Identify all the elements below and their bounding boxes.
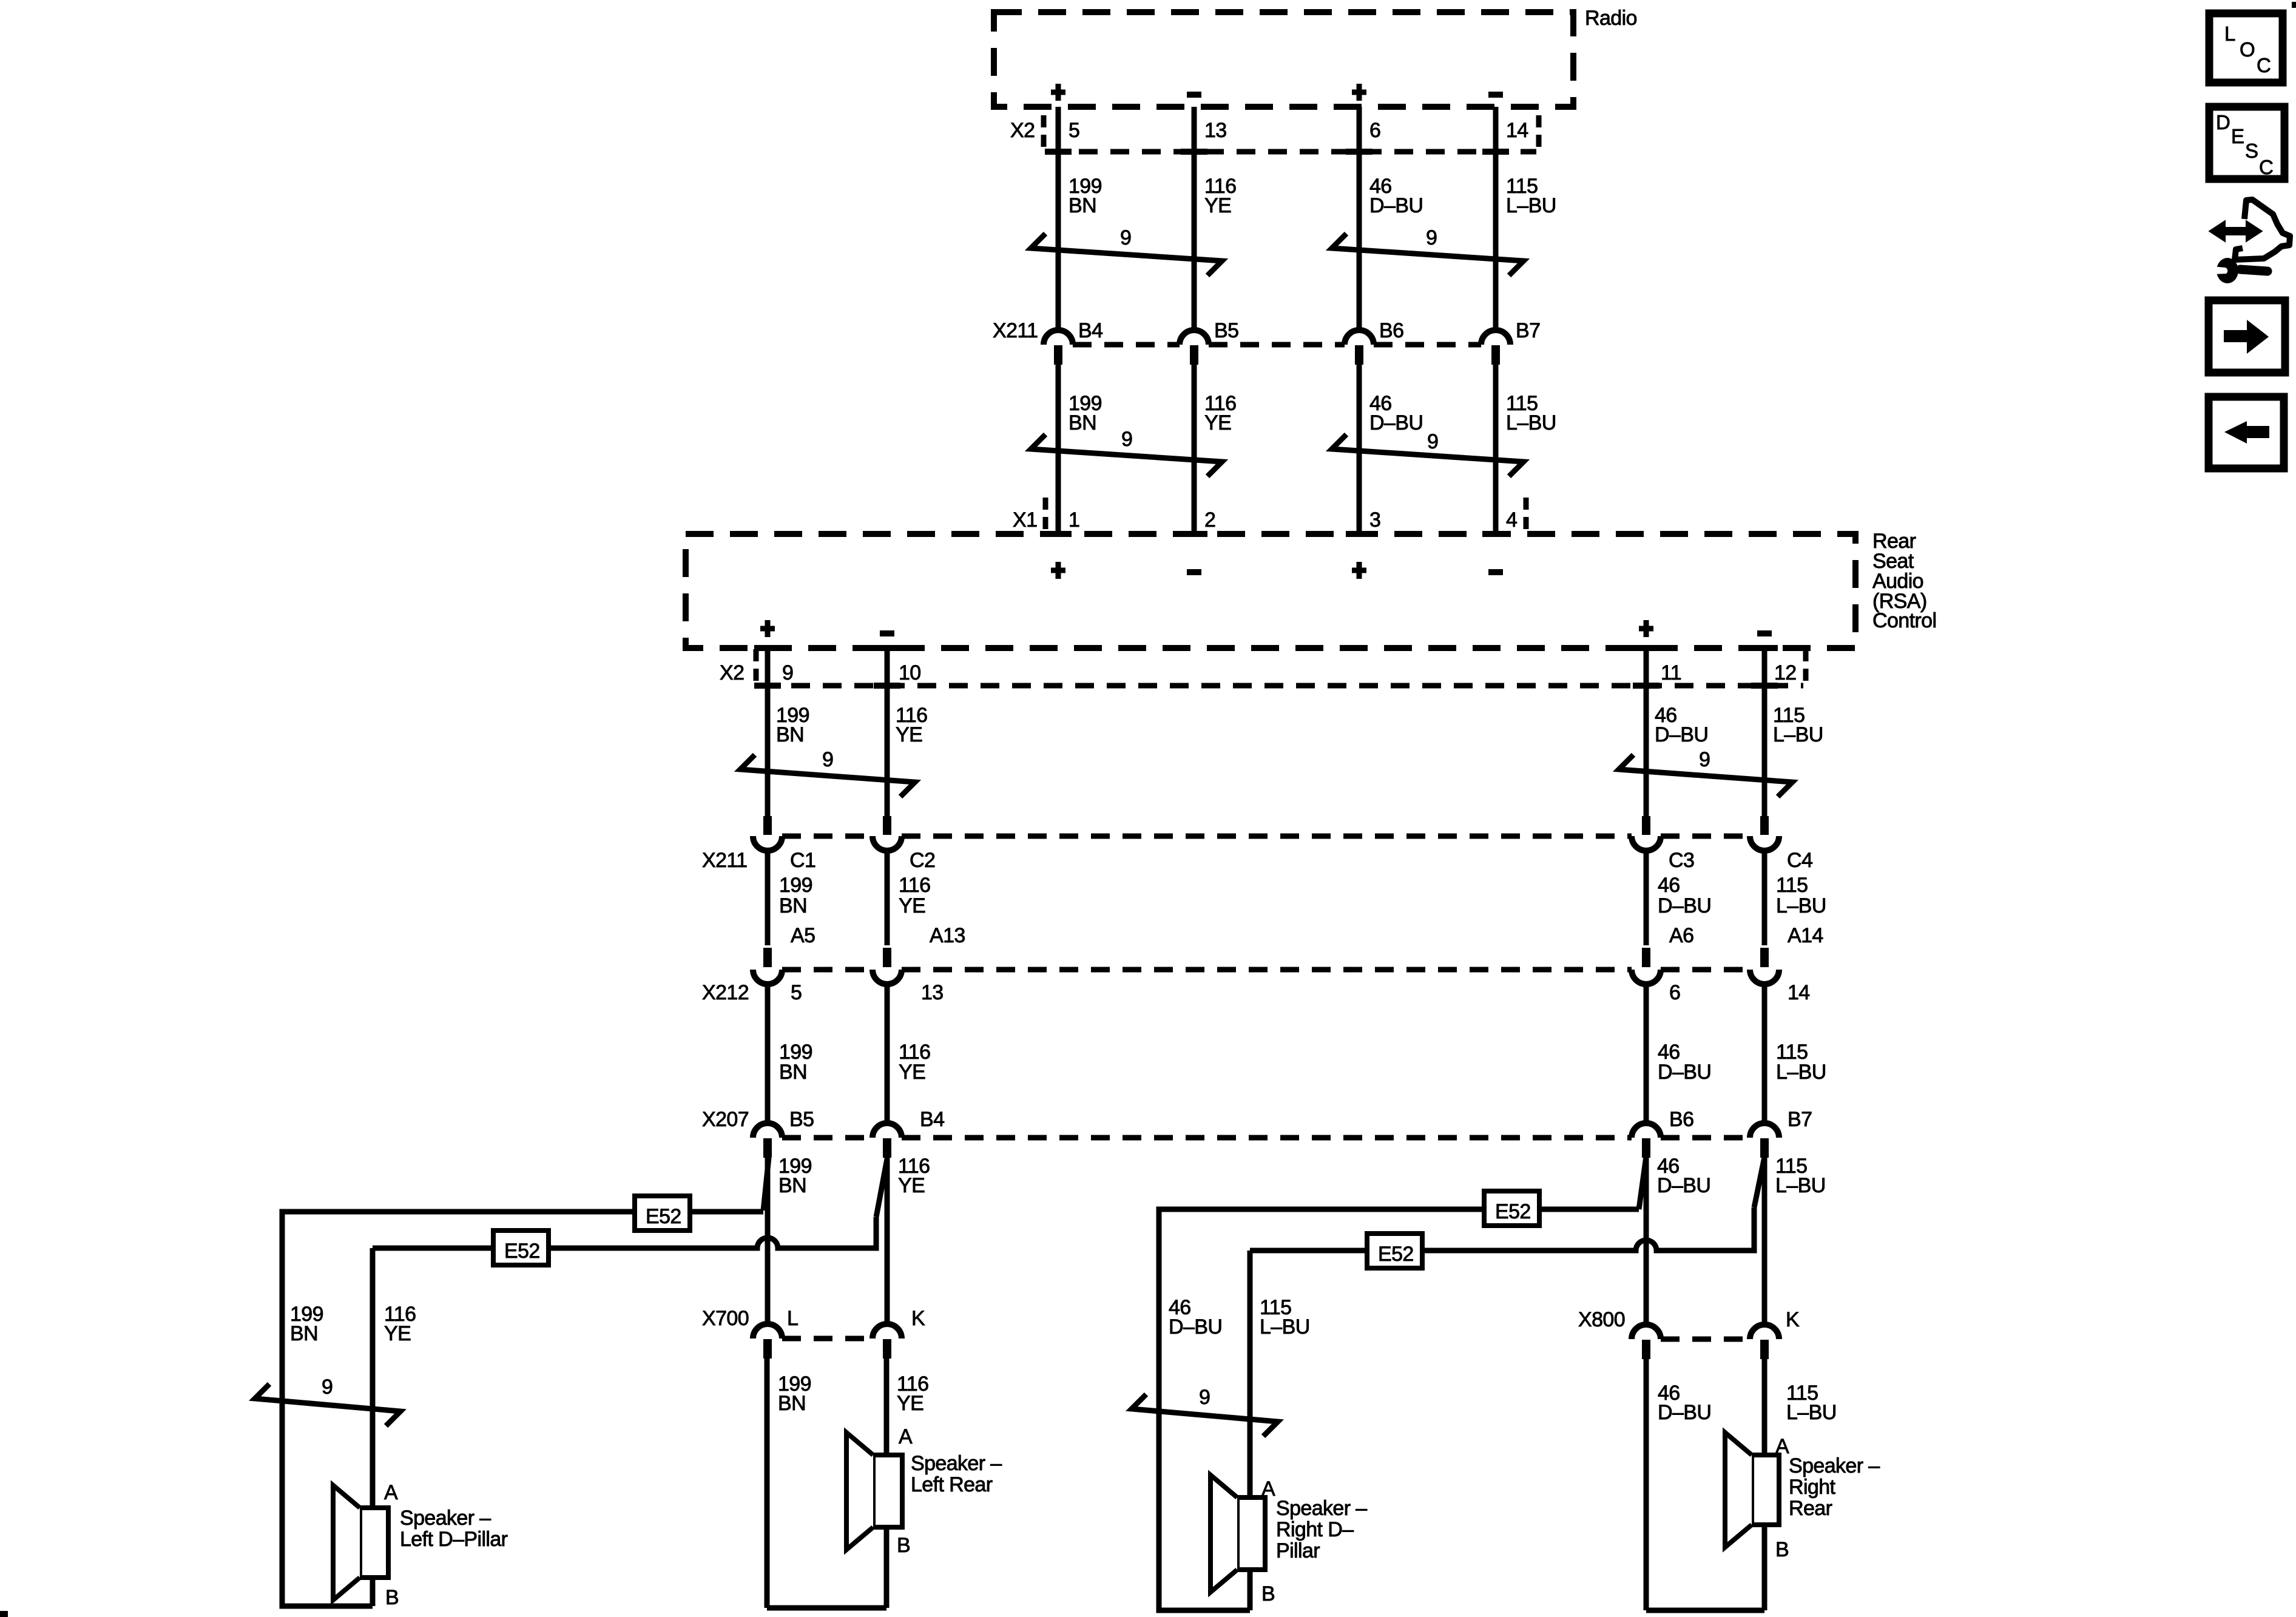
X800 left pin stub <box>1642 1340 1650 1359</box>
svg-text:B: B <box>1261 1582 1275 1605</box>
wire right D-pillar speaker B to loop <box>1248 1570 1253 1610</box>
X212 pin 13 connector arc <box>873 970 902 984</box>
svg-text:B6: B6 <box>1669 1108 1693 1131</box>
svg-text:YE: YE <box>899 894 925 917</box>
svg-text:9: 9 <box>1199 1386 1210 1409</box>
connector X2 RSA right bracket <box>1803 649 1809 683</box>
twisted pair symbol circuit 9 (199/116) lower <box>1031 434 1222 476</box>
svg-text:YE: YE <box>899 1061 925 1084</box>
X700 pin K stub <box>883 1339 891 1359</box>
svg-text:B4: B4 <box>920 1108 944 1131</box>
svg-text:Pillar: Pillar <box>1276 1539 1320 1562</box>
svg-text:A5: A5 <box>791 924 815 947</box>
svg-text:E52: E52 <box>646 1205 681 1228</box>
svg-text:115: 115 <box>1776 874 1808 897</box>
svg-text:BN: BN <box>1069 411 1096 434</box>
X212 pin 6 connector arc <box>1632 970 1661 984</box>
RSA terminal - (pin10) <box>880 630 894 636</box>
X1 pin 3 T-joint <box>1346 531 1373 537</box>
wire E52 branch lower-left with hop and 116 YE drop <box>373 1217 876 1508</box>
svg-text:X1: X1 <box>1013 508 1037 532</box>
svg-text:X2: X2 <box>1010 119 1035 142</box>
icon LOC box <box>2209 13 2283 83</box>
wire 115 L-BU X207 B7 to X800 K <box>1762 1158 1768 1326</box>
X212 pin A14 stub <box>1760 948 1769 967</box>
X2 pin 13 T-joint <box>1181 149 1207 155</box>
svg-text:C: C <box>2257 54 2271 76</box>
svg-text:14: 14 <box>1506 119 1528 142</box>
svg-text:K: K <box>911 1307 925 1330</box>
svg-text:E52: E52 <box>1378 1243 1414 1266</box>
X2 pin 14 T-joint <box>1482 149 1509 155</box>
RSA terminal + (pin9) <box>760 620 775 637</box>
X211 RSA dashed line seg3 <box>1661 834 1750 839</box>
wire 115 L-BU radio pin 14 to X211 B7 <box>1493 107 1499 331</box>
svg-text:6: 6 <box>1669 981 1680 1004</box>
svg-text:E: E <box>2231 125 2244 147</box>
grommet E52 right lower <box>1367 1234 1422 1268</box>
X211 pin C3 stub <box>1642 816 1650 835</box>
svg-text:46: 46 <box>1658 874 1680 897</box>
wire 199 BN X212 to X207 B5 <box>765 984 771 1124</box>
X212 pin A6 stub <box>1642 948 1650 967</box>
svg-text:C3: C3 <box>1669 849 1694 872</box>
svg-text:A6: A6 <box>1669 924 1693 947</box>
X800 left pin connector arc <box>1632 1325 1661 1339</box>
svg-text:9: 9 <box>1120 226 1131 249</box>
svg-text:BN: BN <box>779 1061 807 1084</box>
RSA bottom pin 11 T-joint <box>1633 645 1660 651</box>
RSA terminal + (pin11) <box>1639 620 1653 637</box>
svg-text:X800: X800 <box>1578 1308 1625 1331</box>
svg-text:L–BU: L–BU <box>1776 894 1826 917</box>
twisted pair symbol circuit 9 (right branch) <box>1132 1394 1278 1436</box>
wire E52 branch upper-right and right D-pillar loop <box>1159 1209 1639 1610</box>
X211 pin C2 stub <box>883 816 891 835</box>
connector X1 left bracket <box>1043 498 1048 532</box>
svg-text:X211: X211 <box>993 319 1038 342</box>
svg-text:S: S <box>2245 140 2258 162</box>
Radio terminal + (pin 6) <box>1352 84 1366 101</box>
twisted pair symbol circuit 9 (199/116) <box>1031 234 1222 275</box>
svg-text:C4: C4 <box>1787 849 1812 872</box>
svg-text:BN: BN <box>778 1174 806 1197</box>
X700 dashed line <box>782 1336 873 1342</box>
svg-text:A: A <box>1261 1477 1275 1501</box>
wire 46 D-BU X211 B6 to RSA X1 pin3 <box>1357 365 1362 534</box>
X211 radio-side dashed line seg3 <box>1374 342 1481 348</box>
wire right rear loop bottom <box>1646 1608 1764 1613</box>
svg-text:B: B <box>1775 1538 1789 1561</box>
svg-text:YE: YE <box>384 1322 411 1345</box>
svg-text:L–BU: L–BU <box>1506 411 1556 434</box>
svg-text:A14: A14 <box>1788 924 1823 947</box>
X212 dashed line seg3 <box>1661 967 1750 973</box>
svg-text:13: 13 <box>921 981 944 1004</box>
svg-text:D–BU: D–BU <box>1658 1401 1711 1424</box>
wire 46 D-BU radio pin 6 to X211 B6 <box>1357 107 1362 331</box>
svg-text:C: C <box>2259 156 2273 178</box>
RSA terminal + (pin3) <box>1352 562 1366 579</box>
connector X1 right bracket <box>1524 498 1529 532</box>
X211 pin B5 stub <box>1190 345 1198 365</box>
wire E52 branch lower-right with hop <box>1250 1207 1754 1497</box>
grommet E52 left lower <box>493 1230 549 1265</box>
X207 pin B6 connector arc <box>1632 1123 1661 1138</box>
X700 pin K connector arc <box>873 1324 902 1338</box>
svg-text:Left Rear: Left Rear <box>911 1473 993 1496</box>
wire 199 BN X207 B5 to X700 L <box>765 1158 771 1325</box>
svg-text:L–BU: L–BU <box>1773 723 1823 746</box>
X207 pin B5 connector arc <box>753 1123 782 1138</box>
connector X2 right bracket <box>1536 115 1542 149</box>
X2 RSA dashed line <box>760 683 1803 689</box>
RSA bottom pin 10 T-joint <box>874 645 900 651</box>
wire 116 YE X207 B4 to X700 K <box>885 1158 890 1325</box>
X211 radio-side dashed line seg2 <box>1209 342 1345 348</box>
twisted pair symbol circuit 9 (RSA left pair) <box>740 755 915 797</box>
X211 pin B4 connector arc <box>1044 330 1073 345</box>
svg-text:BN: BN <box>779 894 807 917</box>
twisted pair symbol circuit 9 (46/115) lower <box>1332 434 1524 476</box>
wire 46 D-BU X800 to right rear loop <box>1644 1359 1649 1610</box>
Radio terminal - (pin 13) <box>1187 92 1201 98</box>
wire 199 BN radio pin 5 to X211 B4 <box>1056 107 1061 331</box>
svg-text:D–BU: D–BU <box>1657 1174 1710 1197</box>
svg-text:1: 1 <box>1069 508 1079 532</box>
wire 115 L-BU X211 B7 to RSA X1 pin4 <box>1493 365 1499 534</box>
X207 dashed line seg1 <box>782 1135 873 1141</box>
Radio component dashed box <box>994 12 1573 107</box>
svg-text:D–BU: D–BU <box>1169 1315 1222 1338</box>
wire 116 YE X700 K to left rear speaker A <box>884 1359 890 1455</box>
svg-text:B: B <box>385 1586 399 1609</box>
X211 radio-side dashed line seg1 <box>1073 342 1180 348</box>
svg-text:9: 9 <box>1121 428 1132 451</box>
svg-text:9: 9 <box>782 661 793 684</box>
svg-text:9: 9 <box>1699 748 1710 771</box>
X207 dashed line seg2 <box>902 1135 1632 1141</box>
icon connector outline <box>2235 200 2290 260</box>
svg-text:X700: X700 <box>702 1307 749 1330</box>
icon forward arrow box <box>2209 300 2285 373</box>
RSA terminal - (pin4) <box>1488 569 1503 575</box>
wire 116 YE radio pin 13 to X211 B5 <box>1192 107 1197 331</box>
wire E52 branch upper-left and left D-pillar loop <box>282 1212 763 1606</box>
svg-text:A: A <box>899 1425 913 1448</box>
wire right rear speaker B to loop <box>1762 1525 1768 1610</box>
X212 pin 5 connector arc <box>753 970 782 984</box>
wire 116 YE X211 C2 to X212 pin13 <box>885 851 890 945</box>
corner speck bottom-left <box>0 1611 8 1617</box>
svg-text:YE: YE <box>1204 194 1231 217</box>
X211 pin C2 connector arc <box>873 836 902 851</box>
X211 pin B4 stub <box>1054 345 1062 365</box>
X800 pin K connector arc <box>1750 1325 1779 1339</box>
svg-text:BN: BN <box>778 1392 806 1415</box>
junction diagonal at X207 B6 <box>1639 1156 1646 1209</box>
X2 pin 5 T-joint <box>1045 149 1072 155</box>
svg-text:BN: BN <box>1069 194 1096 217</box>
svg-text:X207: X207 <box>702 1108 749 1131</box>
X800 pin K stub <box>1760 1340 1769 1359</box>
svg-text:9: 9 <box>322 1376 333 1399</box>
svg-text:12: 12 <box>1774 661 1797 684</box>
svg-text:Speaker –: Speaker – <box>1276 1497 1367 1520</box>
connector X2 dashed line <box>1047 149 1536 155</box>
wire 46 D-BU RSA pin11 to X211 C3 <box>1644 648 1649 817</box>
speaker Right D-Pillar symbol <box>1237 1497 1265 1570</box>
svg-text:Right: Right <box>1789 1476 1836 1499</box>
X211 pin B6 stub <box>1355 345 1363 365</box>
X212 dashed line seg2 <box>902 967 1632 973</box>
svg-text:E52: E52 <box>1495 1200 1531 1223</box>
svg-text:D–BU: D–BU <box>1658 1061 1711 1084</box>
X800 dashed line <box>1661 1337 1750 1342</box>
svg-text:E52: E52 <box>504 1240 540 1263</box>
X2 RSA pin 11 T-joint <box>1633 683 1660 689</box>
RSA bottom pin 9 T-joint <box>754 645 781 651</box>
svg-text:B6: B6 <box>1379 319 1403 342</box>
icon wrench <box>2217 258 2238 283</box>
junction diagonal at X207 B5 <box>763 1158 769 1210</box>
X2 pin 6 T-joint <box>1346 149 1373 155</box>
X207 pin B4 connector arc <box>873 1123 902 1138</box>
svg-text:A: A <box>1775 1435 1789 1458</box>
twisted pair symbol circuit 9 (RSA right pair) <box>1619 755 1792 797</box>
junction diagonal at X207 B4 <box>876 1159 887 1217</box>
speaker Right Rear symbol <box>1752 1455 1779 1525</box>
svg-text:9: 9 <box>822 748 833 771</box>
svg-text:Rear: Rear <box>1789 1497 1832 1520</box>
X1 pin 2 T-joint <box>1181 531 1207 537</box>
X211 RSA dashed line seg1 <box>782 834 873 839</box>
X207 dashed line seg3 <box>1661 1135 1750 1141</box>
Rear Seat Audio RSA Control dashed box <box>686 534 1855 648</box>
svg-text:L: L <box>2224 22 2235 45</box>
svg-text:X2: X2 <box>720 661 744 684</box>
grommet E52 right upper <box>1484 1191 1539 1226</box>
svg-text:14: 14 <box>1788 981 1810 1004</box>
wire 115 L-BU X211 C4 to X212 pin14 <box>1762 851 1768 945</box>
wire 199 BN X700 L to left rear loop <box>765 1359 770 1608</box>
svg-text:B4: B4 <box>1078 319 1102 342</box>
X1 pin 1 T-joint <box>1045 531 1072 537</box>
svg-text:A13: A13 <box>930 924 965 947</box>
icon double arrow <box>2222 227 2249 235</box>
X211 RSA dashed line seg2 <box>902 834 1632 839</box>
wire 46 D-BU X212 to X207 B6 <box>1644 984 1649 1124</box>
svg-text:Control: Control <box>1872 609 1936 632</box>
wire 46 D-BU X211 C3 to X212 pin6 <box>1644 851 1649 945</box>
wire 115 L-BU RSA pin12 to X211 C4 <box>1762 648 1768 817</box>
svg-text:D: D <box>2216 111 2230 133</box>
Radio terminal + (pin 5) <box>1051 84 1065 101</box>
svg-text:L: L <box>787 1307 798 1330</box>
X211 pin C1 stub <box>763 816 772 835</box>
svg-text:Speaker –: Speaker – <box>1789 1454 1880 1477</box>
svg-text:BN: BN <box>776 723 804 746</box>
X700 pin L connector arc <box>753 1324 782 1338</box>
svg-text:C1: C1 <box>790 849 815 872</box>
svg-text:B5: B5 <box>1214 319 1238 342</box>
X207 pin B7 connector arc <box>1750 1123 1779 1138</box>
wire left D-pillar speaker B to loop <box>370 1578 376 1606</box>
speaker Left D-Pillar symbol <box>360 1508 388 1578</box>
wire left rear loop bottom <box>767 1605 886 1611</box>
grommet E52 left upper <box>635 1196 690 1230</box>
wire 115 L-BU X800 K to right rear speaker A <box>1762 1359 1768 1455</box>
svg-text:199: 199 <box>779 874 812 897</box>
svg-text:YE: YE <box>896 723 922 746</box>
svg-text:B7: B7 <box>1516 319 1540 342</box>
X212 pin A13 stub <box>883 948 891 967</box>
X211 pin B7 stub <box>1491 345 1500 365</box>
svg-text:B5: B5 <box>789 1108 814 1131</box>
svg-text:D–BU: D–BU <box>1369 194 1423 217</box>
X207 pin B4 stub <box>883 1138 891 1158</box>
svg-text:L–BU: L–BU <box>1260 1315 1310 1338</box>
X1 pin 4 T-joint <box>1482 531 1509 537</box>
svg-text:6: 6 <box>1369 119 1380 142</box>
svg-text:K: K <box>1786 1308 1800 1331</box>
svg-text:D–BU: D–BU <box>1655 723 1708 746</box>
svg-text:X211: X211 <box>702 849 747 872</box>
X211 pin C4 connector arc <box>1750 836 1779 851</box>
X212 dashed line seg1 <box>782 967 873 973</box>
svg-text:2: 2 <box>1204 508 1215 532</box>
svg-text:B7: B7 <box>1788 1108 1812 1131</box>
svg-text:11: 11 <box>1661 661 1681 684</box>
X2 RSA pin 12 T-joint <box>1751 683 1778 689</box>
X211 pin C3 connector arc <box>1632 836 1661 851</box>
svg-text:X212: X212 <box>702 981 749 1004</box>
connector X2 RSA left bracket <box>754 649 759 683</box>
X212 pin A5 stub <box>763 948 772 967</box>
svg-text:5: 5 <box>1069 119 1079 142</box>
RSA bottom pin 12 T-joint <box>1751 645 1778 651</box>
X2 RSA pin 9 T-joint <box>754 683 781 689</box>
RSA terminal - (pin12) <box>1757 630 1772 636</box>
svg-text:9: 9 <box>1427 430 1438 453</box>
wire 116 YE RSA pin10 to X211 C2 <box>885 648 890 817</box>
Radio terminal - (pin 14) <box>1488 92 1503 98</box>
svg-text:YE: YE <box>898 1174 925 1197</box>
wire 46 D-BU X207 B6 to X800 <box>1644 1158 1649 1326</box>
twisted pair symbol circuit 9 (left branch) <box>255 1384 400 1426</box>
X211 pin C1 connector arc <box>753 836 782 851</box>
svg-text:Speaker –: Speaker – <box>400 1507 491 1530</box>
svg-text:YE: YE <box>897 1392 923 1415</box>
corner speck top-right <box>2292 2 2296 8</box>
svg-text:L–BU: L–BU <box>1776 1061 1826 1084</box>
svg-text:13: 13 <box>1204 119 1227 142</box>
svg-text:116: 116 <box>899 874 930 897</box>
svg-text:Left D–Pillar: Left D–Pillar <box>400 1528 508 1551</box>
twisted pair symbol circuit 9 (46/115) <box>1332 234 1524 275</box>
wire 116 YE X211 B5 to RSA X1 pin2 <box>1192 365 1197 534</box>
junction diagonal at X207 B7 <box>1754 1157 1764 1207</box>
wire 199 BN RSA pin9 to X211 C1 <box>765 648 771 817</box>
RSA terminal + (pin1) <box>1051 562 1065 579</box>
svg-text:Radio: Radio <box>1585 7 1637 30</box>
svg-text:Right D–: Right D– <box>1276 1518 1354 1541</box>
X211 pin B7 connector arc <box>1481 330 1510 345</box>
svg-text:4: 4 <box>1506 508 1517 532</box>
RSA terminal - (pin2) <box>1187 569 1201 575</box>
X212 pin 14 connector arc <box>1750 970 1779 984</box>
X211 pin B5 connector arc <box>1180 330 1209 345</box>
wire left rear speaker B to loop <box>884 1527 890 1608</box>
svg-text:O: O <box>2240 38 2255 61</box>
X700 pin L stub <box>763 1339 772 1359</box>
svg-text:A: A <box>384 1481 398 1504</box>
svg-text:3: 3 <box>1369 508 1380 532</box>
svg-text:10: 10 <box>899 661 921 684</box>
X211 pin C4 stub <box>1760 816 1769 835</box>
X207 pin B5 stub <box>763 1138 772 1158</box>
X207 pin B7 stub <box>1760 1138 1769 1158</box>
speaker Left Rear symbol <box>873 1455 902 1527</box>
X2 RSA pin 10 T-joint <box>874 683 900 689</box>
X207 pin B6 stub <box>1642 1138 1650 1158</box>
svg-text:L–BU: L–BU <box>1775 1174 1826 1197</box>
svg-text:5: 5 <box>791 981 802 1004</box>
svg-text:9: 9 <box>1426 226 1437 249</box>
connector X2 left bracket <box>1041 115 1047 149</box>
svg-text:YE: YE <box>1204 411 1231 434</box>
icon DESC box <box>2209 107 2284 179</box>
wire 199 BN X211 B4 to RSA X1 pin1 <box>1056 365 1061 534</box>
wire 199 BN X211 C1 to X212 pin5 <box>765 851 771 945</box>
svg-text:D–BU: D–BU <box>1369 411 1423 434</box>
svg-text:Speaker –: Speaker – <box>911 1452 1002 1475</box>
svg-text:D–BU: D–BU <box>1658 894 1711 917</box>
svg-text:C2: C2 <box>910 849 935 872</box>
svg-text:B: B <box>897 1534 910 1557</box>
wire 115 L-BU X212 to X207 B7 <box>1762 984 1768 1124</box>
svg-text:BN: BN <box>290 1322 318 1345</box>
wire 116 YE X212 to X207 B4 <box>885 984 890 1124</box>
svg-text:L–BU: L–BU <box>1506 194 1556 217</box>
svg-text:L–BU: L–BU <box>1786 1401 1837 1424</box>
X211 pin B6 connector arc <box>1345 330 1374 345</box>
icon back arrow box <box>2209 397 2284 468</box>
